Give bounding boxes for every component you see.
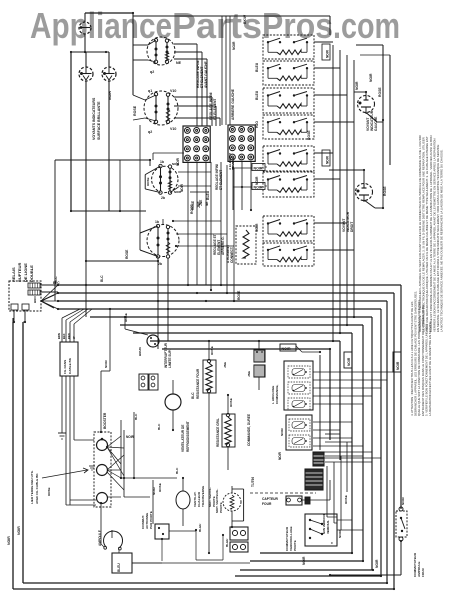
svg-text:CAPTEUR: CAPTEUR <box>262 497 279 501</box>
svg-text:CONNECT.: CONNECT. <box>230 247 234 263</box>
svg-text:ROSE: ROSE <box>210 346 214 355</box>
svg-text:NOIR: NOIR <box>108 91 112 100</box>
svg-text:ROSE: ROSE <box>158 483 162 492</box>
svg-text:RELAIS: RELAIS <box>11 267 16 282</box>
svg-text:q1: q1 <box>148 89 152 93</box>
svg-text:BLEU: BLEU <box>117 563 121 572</box>
svg-text:DROIT: DROIT <box>350 222 354 232</box>
svg-text:PAR PORTE: PAR PORTE <box>149 511 153 529</box>
svg-text:CABLE BK: CABLE BK <box>68 357 72 374</box>
svg-text:NOIR: NOIR <box>282 347 291 351</box>
svg-text:ROSE: ROSE <box>307 130 311 140</box>
svg-text:NOIR: NOIR <box>326 49 330 58</box>
svg-text:NOIR: NOIR <box>347 357 351 366</box>
svg-text:NOIR: NOIR <box>278 451 282 460</box>
svg-text:NOIR: NOIR <box>17 526 21 535</box>
svg-text:NON VERROUIL: NON VERROUIL <box>322 513 326 534</box>
svg-text:JNE: JNE <box>199 200 203 206</box>
svg-text:ROSE: ROSE <box>344 495 348 504</box>
svg-text:LIMITE SUP.: LIMITE SUP. <box>168 349 172 368</box>
svg-text:q2: q2 <box>148 130 152 134</box>
svg-text:BLC: BLC <box>54 276 58 283</box>
svg-text:ROSE: ROSE <box>47 487 51 496</box>
svg-text:BLEU: BLEU <box>225 538 229 547</box>
svg-text:NOIR: NOIR <box>369 73 373 82</box>
svg-text:BRN: BRN <box>33 297 37 304</box>
svg-text:H2O: H2O <box>255 121 259 128</box>
svg-text:VENTILATEUR DE: VENTILATEUR DE <box>181 425 185 452</box>
svg-text:BLC: BLC <box>134 413 138 420</box>
svg-text:BOOSTER: BOOSTER <box>103 412 107 429</box>
svg-text:L HORLOGE: L HORLOGE <box>271 386 275 404</box>
svg-text:NOIR: NOIR <box>326 155 330 164</box>
svg-text:NOIR: NOIR <box>7 536 11 545</box>
svg-text:NOIR: NOIR <box>280 427 284 436</box>
svg-text:DE LIGNE: DE LIGNE <box>23 263 28 282</box>
svg-text:ET ELEMENT: ET ELEMENT <box>213 98 217 120</box>
svg-text:ARRIERE G.: ARRIERE G. <box>221 236 225 255</box>
svg-text:ROSE: ROSE <box>146 177 150 186</box>
svg-text:ROSE: ROSE <box>237 290 241 300</box>
svg-text:NE: NE <box>176 61 182 65</box>
svg-text:FOUR: FOUR <box>421 567 425 577</box>
svg-text:COMMANDE, DUREE: COMMANDE, DUREE <box>247 414 251 446</box>
svg-text:LA NOTICE TECHNIQUE DE SERVICE: LA NOTICE TECHNIQUE DE SERVICE ANNEXEE. … <box>440 149 444 332</box>
svg-text:2b: 2b <box>158 262 162 266</box>
svg-text:JNE: JNE <box>247 371 251 377</box>
svg-text:T1/T96: T1/T96 <box>251 477 255 487</box>
svg-text:2b: 2b <box>161 196 165 200</box>
svg-text:ROSE: ROSE <box>229 398 233 407</box>
svg-text:VOYANTS INDICATEURS: VOYANTS INDICATEURS <box>92 97 96 140</box>
svg-text:ET ELEMENT: ET ELEMENT <box>219 170 223 190</box>
svg-text:FIL DANS: FIL DANS <box>63 360 67 374</box>
svg-text:LA REPARATION EFFECTUEE AVANT: LA REPARATION EFFECTUEE AVANT DE LE REME… <box>428 321 432 416</box>
svg-text:BLEU: BLEU <box>198 523 202 532</box>
svg-text:FOUR: FOUR <box>262 502 272 506</box>
svg-text:V10: V10 <box>170 89 176 93</box>
svg-text:BLEU: BLEU <box>255 90 259 100</box>
svg-text:NOIR: NOIR <box>375 559 379 568</box>
svg-text:AVEC FIL CABLE BK: AVEC FIL CABLE BK <box>35 473 39 504</box>
svg-text:1b: 1b <box>155 220 159 224</box>
svg-text:RESISTANCE FOUR: RESISTANCE FOUR <box>196 368 200 399</box>
svg-text:RESISTANCE GRIL: RESISTANCE GRIL <box>216 418 220 447</box>
svg-text:V10: V10 <box>170 127 176 131</box>
svg-text:ROSE: ROSE <box>378 87 382 97</box>
svg-text:REFROIDISSEMENT: REFROIDISSEMENT <box>186 421 190 452</box>
svg-text:GAUCHE: GAUCHE <box>374 116 378 131</box>
svg-text:ROSE: ROSE <box>125 249 129 259</box>
svg-text:ROSE: ROSE <box>383 186 387 196</box>
svg-text:q2: q2 <box>150 70 154 74</box>
svg-text:1b: 1b <box>160 160 164 164</box>
svg-text:NOIR: NOIR <box>401 496 405 505</box>
svg-text:SURFACE BRILLANTE: SURFACE BRILLANTE <box>97 101 101 140</box>
svg-text:NOIR: NOIR <box>338 529 342 538</box>
svg-text:ROSE: ROSE <box>191 201 195 210</box>
svg-text:NOIR: NOIR <box>255 176 259 185</box>
svg-text:BLC: BLC <box>191 392 195 399</box>
svg-text:NOIR: NOIR <box>172 162 179 166</box>
svg-text:NOIR: NOIR <box>396 361 400 370</box>
svg-text:JNE: JNE <box>223 362 227 368</box>
svg-text:LIER TERRE NEU UTIL: LIER TERRE NEU UTIL <box>30 470 34 504</box>
svg-text:NOIR: NOIR <box>355 81 359 90</box>
svg-text:COMMANDE,: COMMANDE, <box>275 384 279 404</box>
svg-text:PORTE: PORTE <box>293 540 297 551</box>
svg-text:BLK: BLK <box>62 333 66 339</box>
svg-text:RED: RED <box>67 333 71 339</box>
svg-text:C: C <box>331 541 333 545</box>
svg-text:BLC: BLC <box>175 467 179 474</box>
svg-text:BLC: BLC <box>100 275 104 282</box>
svg-text:DOUBLE: DOUBLE <box>29 265 34 282</box>
svg-text:NOIR: NOIR <box>302 556 306 565</box>
svg-text:ARRIERE GAUCHE: ARRIERE GAUCHE <box>231 88 235 120</box>
svg-text:BLEU: BLEU <box>255 62 259 72</box>
svg-text:BLC: BLC <box>157 423 161 430</box>
svg-text:NE: NE <box>205 202 209 206</box>
svg-text:NOIR: NOIR <box>104 359 108 368</box>
svg-text:RUPTEUR: RUPTEUR <box>17 263 22 282</box>
svg-text:NOIR: NOIR <box>174 190 181 194</box>
svg-text:NOIR: NOIR <box>126 435 135 439</box>
svg-text:BLEU: BLEU <box>206 190 210 200</box>
svg-text:PORTE: PORTE <box>219 502 223 513</box>
svg-text:TRANSVERSE: TRANSVERSE <box>201 486 205 507</box>
svg-text:NOIR: NOIR <box>232 41 236 50</box>
svg-text:NOIR: NOIR <box>254 186 263 190</box>
svg-text:NOIR: NOIR <box>254 167 263 171</box>
svg-text:BRUN: BRUN <box>138 347 142 356</box>
svg-text:BK/W: BK/W <box>243 14 247 24</box>
svg-text:VERROUIL: VERROUIL <box>326 520 330 534</box>
svg-text:BRN: BRN <box>57 333 61 339</box>
svg-text:ROSE: ROSE <box>133 105 137 116</box>
svg-text:AVANT GAUCHE: AVANT GAUCHE <box>204 60 208 88</box>
